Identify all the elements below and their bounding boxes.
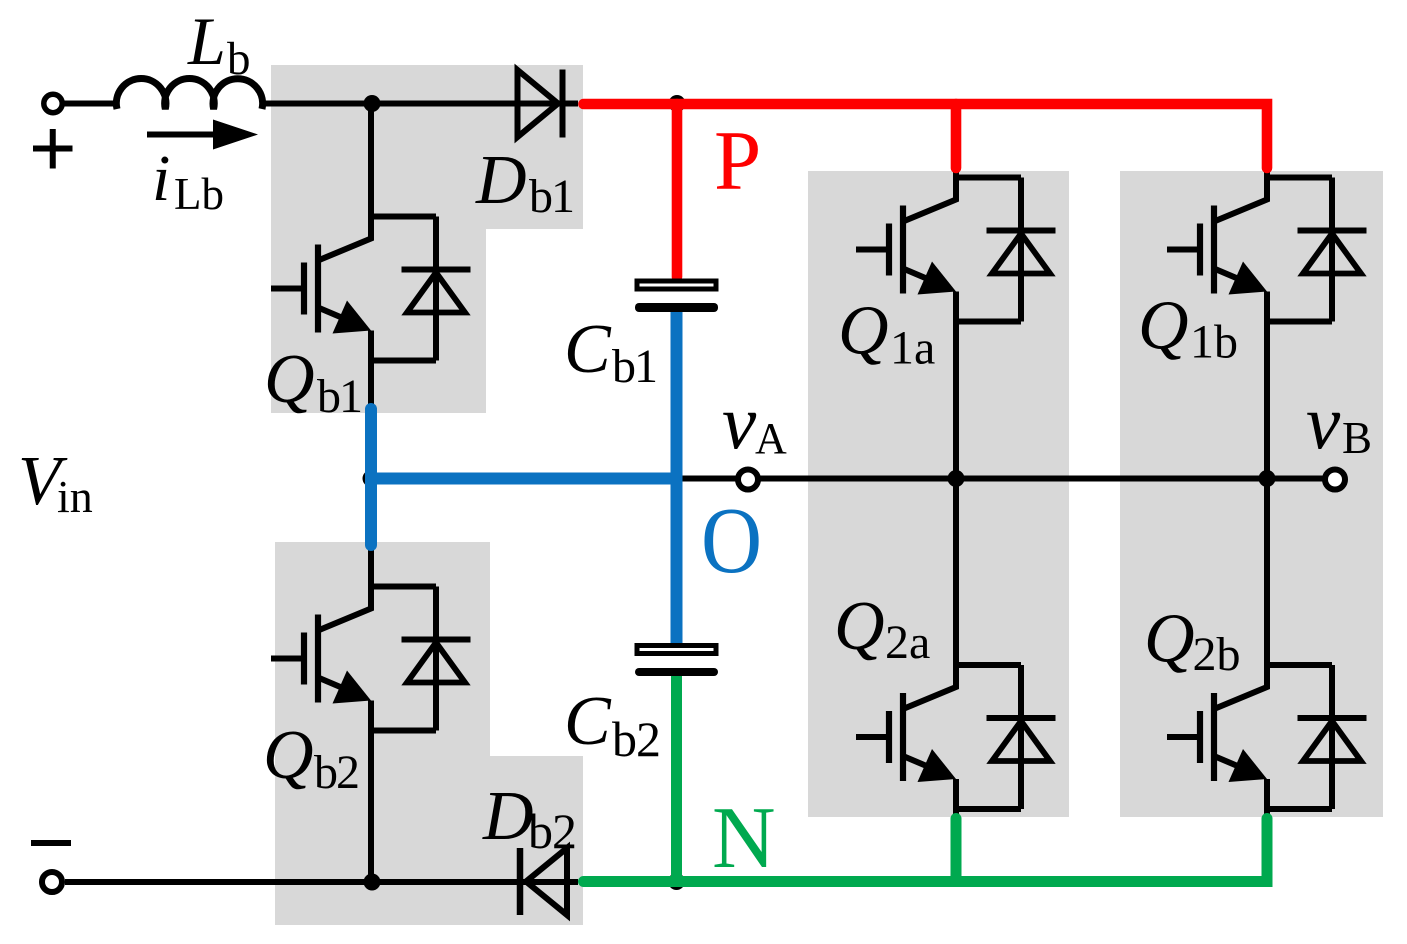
svg-text:b1: b1 [317,370,361,423]
svg-text:in: in [57,471,93,522]
svg-text:Lb: Lb [174,169,224,219]
svg-text:A: A [755,414,787,463]
svg-text:Q: Q [263,717,314,794]
svg-text:Q: Q [1138,288,1189,365]
svg-text:2b: 2b [1193,628,1241,681]
svg-text:i: i [152,142,170,215]
svg-text:P: P [714,114,761,208]
svg-text:v: v [722,379,757,465]
svg-text:C: C [564,683,612,760]
svg-text:D: D [475,142,527,219]
svg-text:Q: Q [834,588,885,665]
svg-text:C: C [564,311,612,388]
svg-text:b1: b1 [529,170,573,223]
svg-text:1b: 1b [1190,316,1238,369]
svg-text:2a: 2a [885,616,930,669]
svg-text:Q: Q [838,293,889,370]
svg-text:D: D [482,778,534,855]
svg-text:O: O [701,489,762,593]
svg-text:b2: b2 [528,803,576,859]
svg-text:1a: 1a [890,322,935,375]
svg-text:Q: Q [264,341,315,418]
svg-text:b: b [227,33,251,85]
svg-text:L: L [187,3,226,79]
svg-text:Q: Q [1144,601,1195,678]
svg-text:b1: b1 [612,340,656,393]
svg-text:B: B [1342,413,1372,463]
svg-text:N: N [712,790,776,887]
svg-text:b2: b2 [612,711,660,767]
svg-text:v: v [1306,379,1341,465]
svg-text:b2: b2 [314,746,358,799]
